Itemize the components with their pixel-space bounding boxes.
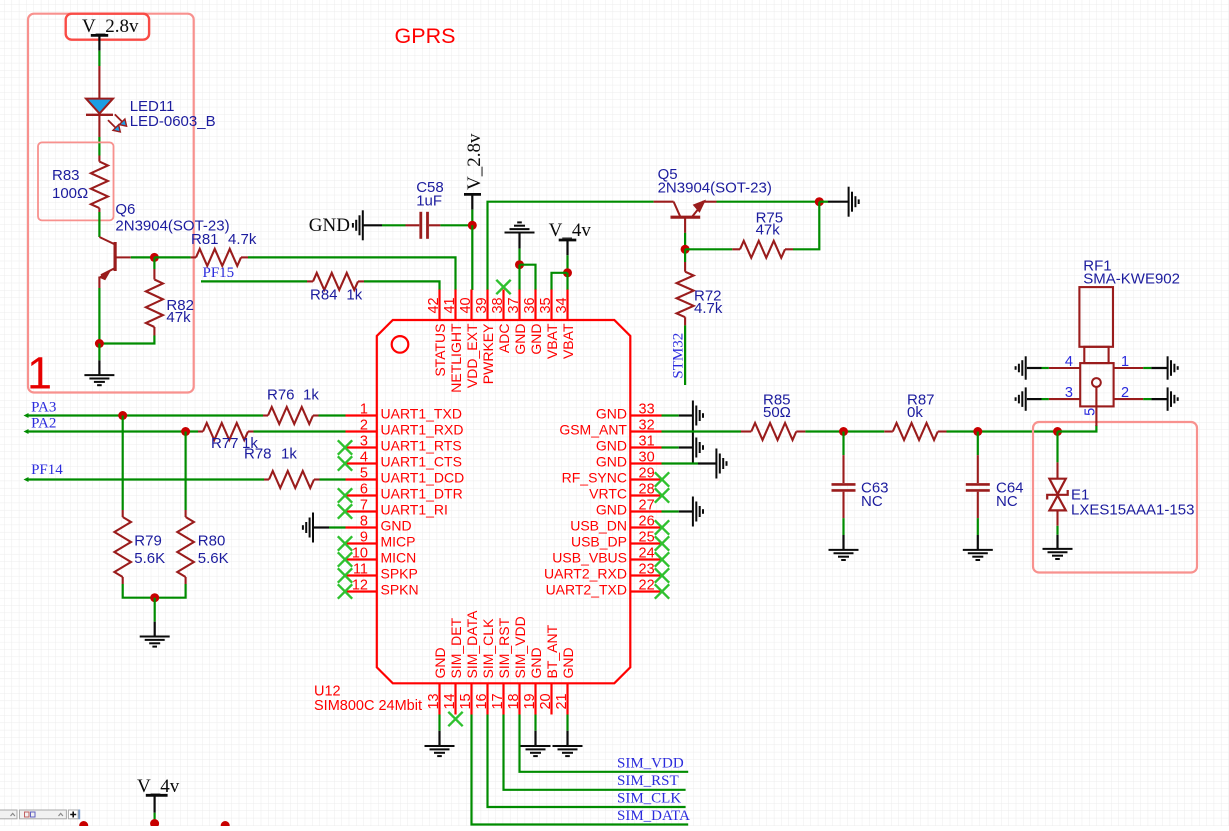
- svg-text:R84: R84: [310, 287, 338, 304]
- svg-text:GND: GND: [596, 438, 627, 454]
- svg-text:30: 30: [639, 450, 655, 466]
- svg-text:38: 38: [490, 297, 506, 313]
- svg-text:GND: GND: [512, 324, 528, 355]
- svg-text:9: 9: [360, 530, 368, 546]
- svg-text:GPRS: GPRS: [395, 24, 456, 48]
- svg-text:STM32: STM32: [670, 333, 686, 379]
- svg-text:3: 3: [360, 434, 368, 450]
- svg-text:1: 1: [360, 402, 368, 418]
- svg-text:2N3904(SOT-23): 2N3904(SOT-23): [658, 180, 772, 197]
- svg-text:Q6: Q6: [115, 201, 135, 218]
- svg-text:GND: GND: [432, 647, 448, 678]
- svg-text:UART1_DCD: UART1_DCD: [381, 470, 465, 486]
- svg-text:100Ω: 100Ω: [52, 185, 88, 202]
- svg-text:12: 12: [352, 578, 368, 594]
- svg-text:1k: 1k: [281, 446, 297, 463]
- svg-text:R77: R77: [211, 435, 239, 452]
- svg-text:35: 35: [538, 297, 554, 313]
- svg-text:22: 22: [639, 578, 655, 594]
- svg-text:SIM_RST: SIM_RST: [496, 617, 512, 678]
- svg-text:GND: GND: [560, 647, 576, 678]
- svg-text:STATUS: STATUS: [432, 324, 448, 377]
- svg-text:SIM_CLK: SIM_CLK: [617, 790, 681, 806]
- svg-text:2: 2: [1121, 385, 1129, 401]
- svg-text:V_4v: V_4v: [137, 776, 180, 797]
- svg-text:4.7k: 4.7k: [694, 300, 723, 317]
- svg-text:R76: R76: [267, 387, 295, 404]
- svg-text:BT_ANT: BT_ANT: [544, 624, 560, 678]
- svg-text:SIM_VDD: SIM_VDD: [512, 616, 528, 678]
- svg-text:17: 17: [490, 693, 506, 709]
- svg-text:23: 23: [639, 562, 655, 578]
- svg-text:1uF: 1uF: [416, 193, 442, 210]
- svg-text:V_4v: V_4v: [549, 220, 592, 241]
- svg-text:USB_DP: USB_DP: [571, 534, 627, 550]
- svg-text:MICN: MICN: [381, 550, 417, 566]
- svg-text:14: 14: [442, 693, 458, 709]
- svg-text:SIM_CLK: SIM_CLK: [480, 618, 496, 679]
- svg-text:2: 2: [360, 418, 368, 434]
- svg-text:SPKN: SPKN: [381, 582, 419, 598]
- svg-text:RF_SYNC: RF_SYNC: [562, 470, 627, 486]
- svg-text:UART1_TXD: UART1_TXD: [381, 406, 462, 422]
- svg-text:33: 33: [639, 402, 655, 418]
- svg-text:R79: R79: [134, 533, 162, 550]
- svg-text:SIM800C 24Mbit: SIM800C 24Mbit: [314, 698, 422, 714]
- svg-text:NETLIGHT: NETLIGHT: [448, 323, 464, 393]
- svg-text:1: 1: [1121, 354, 1129, 370]
- svg-text:LXES15AAA1-153: LXES15AAA1-153: [1071, 501, 1194, 518]
- svg-text:20: 20: [538, 693, 554, 709]
- svg-text:31: 31: [639, 434, 655, 450]
- svg-text:36: 36: [522, 297, 538, 313]
- svg-text:UART1_RXD: UART1_RXD: [381, 422, 464, 438]
- svg-text:GND: GND: [381, 518, 412, 534]
- svg-text:SIM_VDD: SIM_VDD: [617, 755, 684, 771]
- svg-text:SMA-KWE902: SMA-KWE902: [1083, 271, 1180, 288]
- svg-text:USB_VBUS: USB_VBUS: [552, 550, 627, 566]
- svg-text:34: 34: [554, 297, 570, 313]
- svg-text:50Ω: 50Ω: [763, 404, 791, 421]
- svg-text:SPKP: SPKP: [381, 566, 418, 582]
- svg-text:4.7k: 4.7k: [228, 231, 257, 248]
- svg-text:VBAT: VBAT: [544, 323, 560, 359]
- svg-text:NC: NC: [996, 493, 1018, 510]
- svg-text:GSM_ANT: GSM_ANT: [559, 422, 627, 438]
- svg-text:VBAT: VBAT: [560, 323, 576, 359]
- svg-text:8: 8: [360, 514, 368, 530]
- svg-text:21: 21: [554, 693, 570, 709]
- svg-text:GND: GND: [309, 215, 350, 236]
- svg-text:PA3: PA3: [31, 399, 56, 415]
- svg-text:UART1_CTS: UART1_CTS: [381, 454, 462, 470]
- svg-text:5.6K: 5.6K: [198, 550, 229, 567]
- svg-text:47k: 47k: [166, 309, 191, 326]
- svg-text:1k: 1k: [346, 287, 362, 304]
- svg-text:UART1_RI: UART1_RI: [381, 502, 448, 518]
- svg-text:GND: GND: [528, 647, 544, 678]
- svg-text:SIM_DET: SIM_DET: [448, 617, 464, 678]
- svg-text:40: 40: [458, 297, 474, 313]
- svg-text:25: 25: [639, 530, 655, 546]
- svg-text:41: 41: [442, 297, 458, 313]
- svg-text:32: 32: [639, 418, 655, 434]
- svg-text:R81: R81: [191, 231, 219, 248]
- svg-text:1: 1: [27, 348, 52, 399]
- svg-text:47k: 47k: [756, 222, 781, 239]
- svg-text:5.6K: 5.6K: [134, 550, 165, 567]
- svg-text:UART2_TXD: UART2_TXD: [546, 582, 627, 598]
- svg-text:0k: 0k: [907, 404, 923, 421]
- svg-text:42: 42: [426, 297, 442, 313]
- svg-text:USB_DN: USB_DN: [570, 518, 627, 534]
- svg-text:SIM_DATA: SIM_DATA: [617, 808, 690, 824]
- svg-text:6: 6: [360, 482, 368, 498]
- svg-text:SIM_DATA: SIM_DATA: [464, 610, 480, 679]
- svg-text:LED-0603_B: LED-0603_B: [130, 113, 216, 130]
- svg-text:GND: GND: [596, 454, 627, 470]
- svg-text:R80: R80: [198, 533, 226, 550]
- svg-text:V_2.8v: V_2.8v: [82, 16, 139, 37]
- svg-text:15: 15: [458, 693, 474, 709]
- svg-text:26: 26: [639, 514, 655, 530]
- svg-text:27: 27: [639, 498, 655, 514]
- svg-text:11: 11: [353, 562, 368, 578]
- svg-text:4: 4: [1065, 354, 1073, 370]
- svg-text:5: 5: [360, 466, 368, 482]
- svg-text:37: 37: [506, 297, 522, 313]
- svg-text:29: 29: [639, 466, 655, 482]
- svg-text:VRTC: VRTC: [589, 486, 627, 502]
- svg-text:4: 4: [360, 450, 368, 466]
- svg-text:16: 16: [474, 693, 490, 709]
- svg-text:R78: R78: [244, 446, 272, 463]
- svg-text:NC: NC: [861, 493, 883, 510]
- svg-text:R83: R83: [52, 167, 80, 184]
- svg-text:39: 39: [474, 297, 490, 313]
- svg-text:ADC: ADC: [496, 324, 512, 354]
- svg-text:GND: GND: [596, 406, 627, 422]
- svg-text:24: 24: [639, 546, 655, 562]
- svg-text:13: 13: [426, 693, 442, 709]
- svg-text:PF15: PF15: [203, 265, 235, 281]
- svg-text:5: 5: [1082, 408, 1098, 416]
- svg-text:28: 28: [639, 482, 655, 498]
- svg-text:3: 3: [1065, 385, 1073, 401]
- svg-text:PA2: PA2: [31, 416, 56, 432]
- svg-text:V_2.8v: V_2.8v: [464, 133, 485, 190]
- svg-text:GND: GND: [596, 502, 627, 518]
- svg-text:UART1_RTS: UART1_RTS: [381, 438, 462, 454]
- svg-text:SIM_RST: SIM_RST: [617, 773, 679, 789]
- svg-text:MICP: MICP: [381, 534, 416, 550]
- svg-text:7: 7: [360, 498, 368, 514]
- svg-text:VDD_EXT: VDD_EXT: [464, 323, 480, 388]
- svg-text:10: 10: [352, 546, 368, 562]
- svg-text:18: 18: [506, 693, 522, 709]
- svg-text:PWRKEY: PWRKEY: [480, 323, 496, 384]
- svg-text:19: 19: [522, 693, 538, 709]
- svg-text:PF14: PF14: [31, 462, 63, 478]
- svg-text:UART2_RXD: UART2_RXD: [544, 566, 627, 582]
- svg-text:UART1_DTR: UART1_DTR: [381, 486, 463, 502]
- svg-text:1k: 1k: [303, 387, 319, 404]
- svg-text:GND: GND: [528, 324, 544, 355]
